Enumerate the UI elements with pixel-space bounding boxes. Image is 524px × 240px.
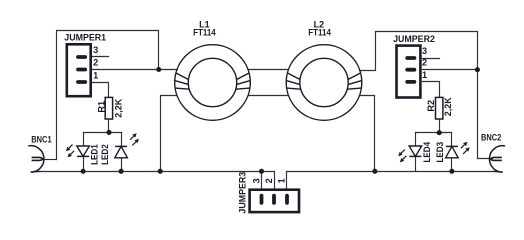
svg-text:R2: R2 <box>426 100 436 112</box>
svg-text:R1: R1 <box>96 101 106 113</box>
svg-text:LED4: LED4 <box>422 141 432 162</box>
svg-text:BNC2: BNC2 <box>481 132 501 142</box>
svg-text:3: 3 <box>251 178 261 183</box>
svg-text:1: 1 <box>93 70 98 80</box>
svg-text:2: 2 <box>93 57 98 67</box>
svg-text:2: 2 <box>422 58 427 68</box>
svg-text:LED3: LED3 <box>435 142 445 163</box>
svg-text:LED2: LED2 <box>100 144 110 165</box>
svg-text:JUMPER1: JUMPER1 <box>64 31 106 42</box>
svg-text:JUMPER2: JUMPER2 <box>393 33 435 44</box>
svg-text:1: 1 <box>422 70 427 80</box>
svg-text:2,2K: 2,2K <box>443 97 453 116</box>
svg-text:3: 3 <box>422 46 427 56</box>
svg-text:LED1: LED1 <box>90 144 100 165</box>
svg-text:FT114: FT114 <box>193 28 216 38</box>
svg-text:FT114: FT114 <box>308 28 331 38</box>
svg-text:2,2K: 2,2K <box>113 98 123 117</box>
svg-text:JUMPER3: JUMPER3 <box>237 172 247 214</box>
svg-text:2: 2 <box>264 178 274 183</box>
svg-text:BNC1: BNC1 <box>31 135 51 145</box>
svg-text:3: 3 <box>93 45 98 55</box>
svg-text:1: 1 <box>276 178 286 183</box>
